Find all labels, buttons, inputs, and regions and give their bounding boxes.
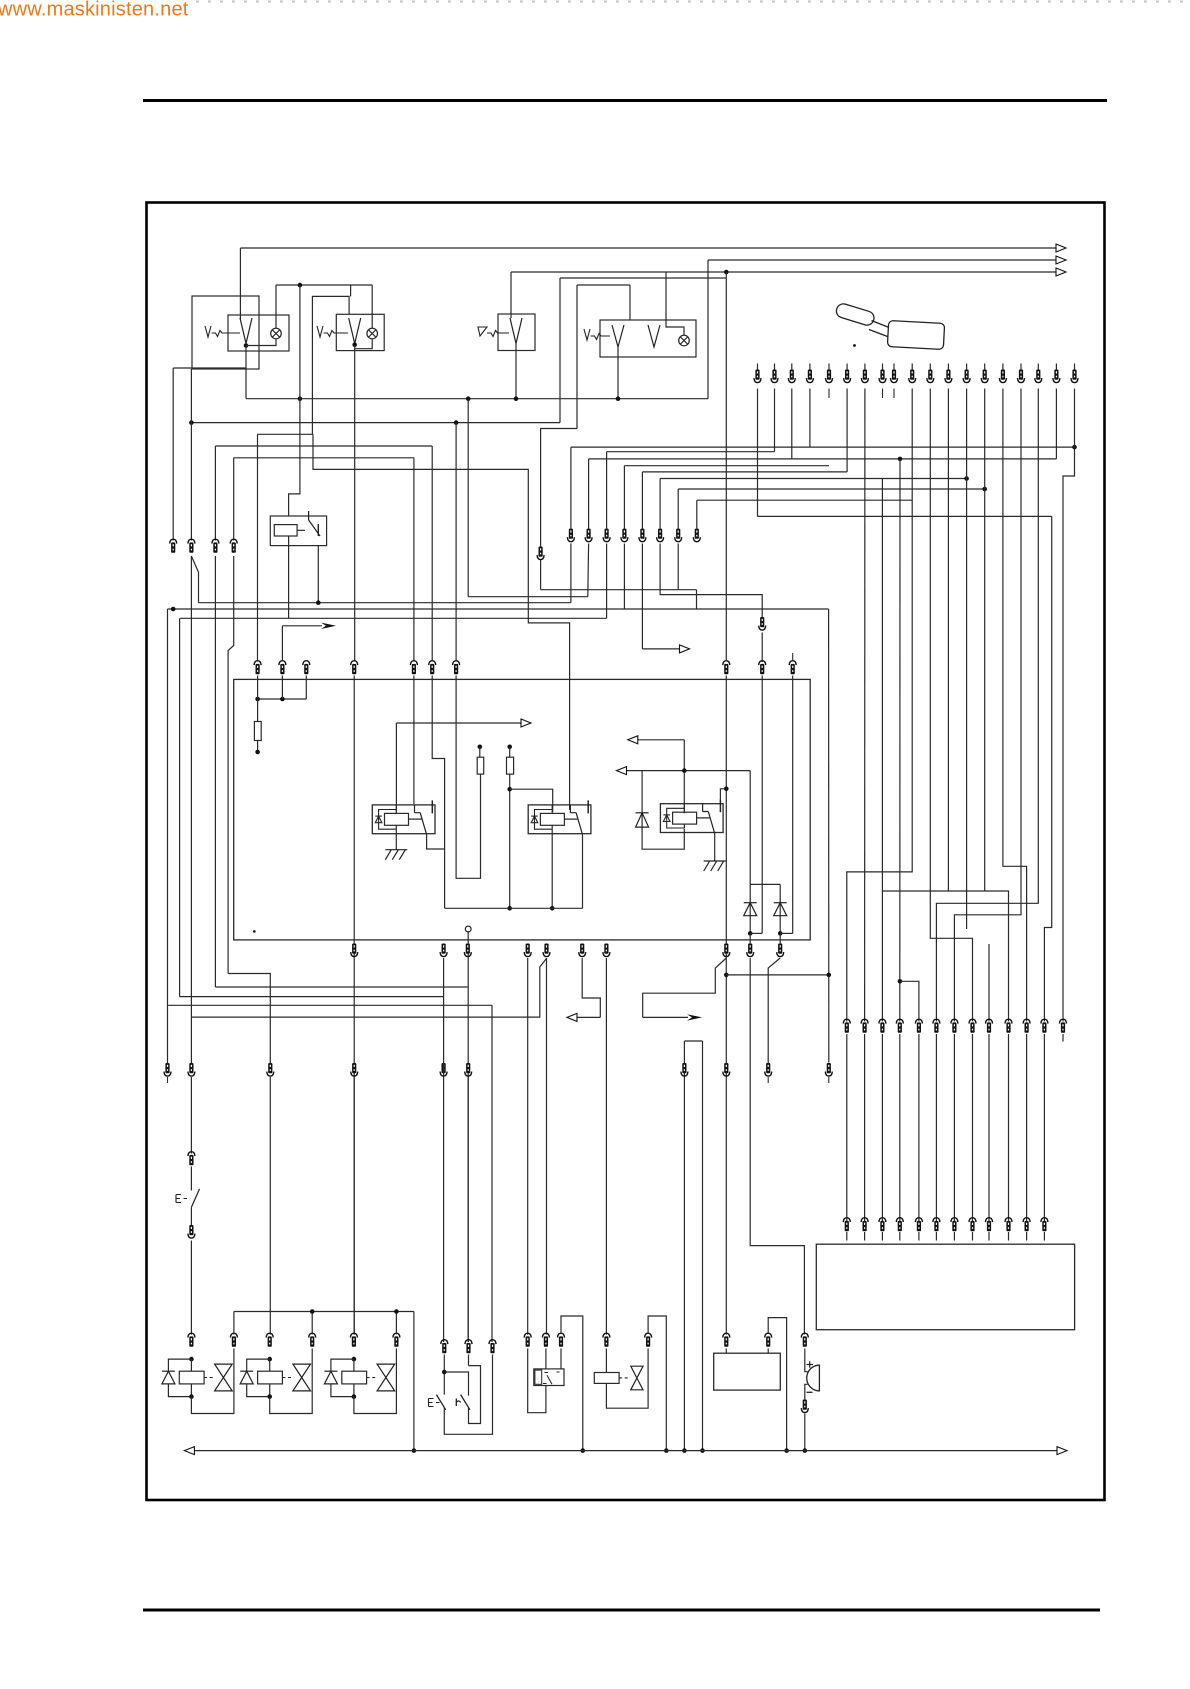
switch S3 contact — [510, 318, 522, 344]
wire horn R stub — [767, 1349, 769, 1354]
lamp H3 — [679, 335, 690, 346]
wire col row5R-6 #7 — [953, 1034, 955, 1222]
pin row5 x684 — [681, 1063, 688, 1076]
wire col x726.3 inner — [725, 676, 727, 1335]
relay K2 parallel diode — [531, 810, 552, 830]
wire bus y618.3 — [180, 617, 606, 619]
wire K1 coil top stub — [395, 805, 397, 814]
node S1 output — [244, 343, 249, 348]
switch S1 inner box — [228, 315, 289, 351]
pin row5R #8 — [969, 1019, 976, 1033]
wire bus y987 — [215, 986, 467, 988]
pin row3 #6 — [429, 661, 436, 675]
pin row1 #16 — [1018, 370, 1025, 383]
junction x828.8 y974.9 — [827, 973, 832, 978]
wire solenoid Y3 diode loop — [331, 1359, 354, 1371]
pin row1 #18 — [1053, 370, 1060, 383]
wire col x546.5 — [546, 958, 548, 1335]
pin row3 #7 — [453, 661, 460, 675]
pin flasher M — [542, 1333, 549, 1347]
wire bus y422.6 — [191, 422, 560, 424]
pin row5R #11 — [1023, 1019, 1030, 1033]
pin row5R #12 — [1041, 1019, 1048, 1033]
pin row3 #2 — [279, 661, 286, 675]
wire drop mid7 to y589.7 — [677, 544, 679, 590]
wire row1-17 drop — [1055, 389, 1057, 459]
junction D2 out — [748, 931, 753, 936]
wire fuse F1 top stub — [257, 699, 259, 722]
wire row1 pin 19 top stub — [1074, 364, 1076, 371]
wire D3 link — [780, 932, 793, 934]
wire lamp H1 top feed — [275, 285, 277, 328]
wire solenoid Y2 return — [270, 1349, 313, 1414]
wire col row5R-6 #6 — [935, 1034, 937, 1222]
junction y422.6 x456.1 — [454, 420, 459, 425]
mark period inside box — [253, 930, 256, 933]
wire arrow y723 — [396, 719, 531, 727]
junction y1450 x582.8 — [581, 1448, 586, 1453]
wire solenoid Y2 coil col — [269, 1359, 271, 1371]
relay K1 parallel diode — [375, 810, 396, 830]
wire F3 to K2 coil — [510, 789, 553, 812]
flasher unit box — [534, 1369, 564, 1386]
pin row5R #5 — [915, 1019, 922, 1033]
junction fan x966.6 — [964, 476, 969, 481]
wire col x173.2 — [172, 368, 174, 541]
wire row3 3 drop — [305, 676, 307, 700]
solenoid Y1 coil — [179, 1371, 204, 1384]
wire row5 x828 tail — [828, 1077, 830, 1083]
pin row4 #9 — [747, 944, 754, 957]
wire col row5R-6 #1 — [846, 1034, 848, 1222]
wire fuse F3 top stub — [509, 747, 511, 757]
wire col x191.4 low2 — [190, 1167, 192, 1191]
pin horn L — [723, 1333, 730, 1347]
pin solenoid Y1 return — [230, 1333, 237, 1347]
pin standalone x762 — [759, 617, 766, 630]
pin row1 #2 — [771, 370, 778, 383]
pin solenoid Y2 return — [309, 1333, 316, 1347]
wire arrow y739.8 — [628, 736, 685, 744]
wire bus y457.8 — [234, 457, 414, 459]
wire solenoid Y3 coil col low — [353, 1384, 355, 1397]
wire row1-4 stub — [828, 389, 830, 399]
wire bus-B y260 to arrow — [708, 256, 1066, 264]
wire col row5R-6 #4 — [899, 1034, 901, 1222]
wire K4 output drop — [317, 546, 319, 603]
wire row3 x456 drop — [456, 676, 480, 879]
wire solenoid Y1 diode loop low — [168, 1384, 191, 1397]
wire row6 stub #12 — [1043, 1232, 1045, 1241]
wire riser x577 — [576, 285, 578, 429]
diagram frame border — [147, 203, 1105, 1501]
wire bridge top link — [750, 883, 780, 885]
junction y699 x257.6 — [255, 697, 260, 702]
pin row6 #11 — [1023, 1218, 1030, 1232]
pin mid #2 — [585, 529, 592, 542]
switch S5 — [456, 1395, 470, 1410]
pin mid #4 — [621, 529, 628, 542]
pin row5R #4 — [896, 1019, 903, 1033]
pin row3 #3 — [303, 661, 310, 675]
wire row1 pin 10 top stub — [911, 364, 913, 371]
relay K3 contact — [697, 799, 721, 833]
pin cluster #2 — [465, 1340, 472, 1354]
wire bus y285 left — [276, 284, 372, 286]
wire bus y398.7 — [246, 398, 708, 400]
wire row6 stub #4 — [899, 1232, 901, 1241]
wire fuse F2 top stub — [479, 747, 481, 757]
wire Y4 ret riser — [648, 1316, 666, 1451]
wire bridge left col — [749, 884, 751, 933]
wire col row5R-6 #12 — [1043, 1034, 1045, 1222]
pin row3 #5 — [410, 661, 417, 675]
switch S1 outer frame — [192, 296, 259, 369]
pin speaker top — [801, 1333, 808, 1347]
diode of solenoid Y3 — [324, 1371, 337, 1384]
wire arrow y1017 left — [567, 1013, 600, 1021]
pin row1 #15 — [999, 370, 1006, 383]
pin row5R #2 — [861, 1019, 868, 1033]
wire row1-2 drop — [791, 389, 793, 459]
pin row4 #3 — [464, 944, 471, 957]
valve symbol of solenoid Y3 — [377, 1364, 395, 1391]
pin row2 #1 — [170, 539, 177, 553]
wire K3 coil feed — [683, 740, 685, 814]
wire arrowS x582 — [582, 958, 600, 1017]
speaker buzzer symbol — [807, 1365, 820, 1391]
ground below K3 — [704, 861, 726, 871]
pin row5R #9 — [986, 1019, 993, 1033]
node fuse F1 end — [255, 750, 260, 755]
wire S2 apex node — [354, 344, 356, 345]
pin row4 #4 — [524, 944, 531, 957]
wire drop mid1 — [570, 544, 572, 603]
solenoid Y3 coil — [342, 1371, 367, 1384]
wire Y4 feed stub — [605, 1349, 607, 1373]
horn unit box — [714, 1353, 781, 1390]
wire bus-C y272 to arrow — [511, 268, 1066, 276]
wire row1 pin 12 top stub — [947, 364, 949, 371]
wire col x443.6 low — [443, 958, 445, 1342]
diode of solenoid Y2 — [240, 1371, 253, 1384]
label plus — [807, 1361, 814, 1368]
pin row2 #2 — [188, 539, 195, 553]
wire K3 coil top stub — [683, 804, 685, 813]
wire flasher M stub — [545, 1349, 547, 1369]
wire row1 pin 17 top stub — [1037, 364, 1039, 371]
wire fan y489 — [678, 488, 985, 490]
relay K2 coil — [540, 813, 564, 825]
pin row5R #1 — [843, 1019, 850, 1033]
wire drop mid3 — [606, 544, 608, 619]
pin row3 #9 — [759, 661, 766, 675]
junction y399 x516 — [514, 396, 519, 401]
junction fan x984.7 — [982, 487, 987, 492]
wire bus y596.7 — [468, 596, 588, 598]
wire mid2 riser — [588, 459, 590, 529]
control unit big box — [234, 679, 811, 940]
pin mid offset — [537, 547, 544, 560]
pin row1 #1 — [754, 370, 761, 383]
wire col x179.6 — [179, 618, 181, 996]
wire col x191.4 low3 — [190, 1207, 192, 1226]
wire arrow y770.6 — [617, 767, 751, 775]
solenoid Y1 bottom node — [189, 1394, 194, 1399]
wire fuse F1 riser — [257, 434, 259, 661]
wire col 900-918 branch — [900, 981, 919, 1021]
wire sol2 ret riser — [311, 1312, 313, 1335]
junction y602.7 x318 — [316, 600, 321, 605]
junction D3 out — [778, 931, 783, 936]
wire bus y278 — [560, 277, 726, 279]
wire col x468.2 low — [467, 932, 469, 1342]
pin solenoid Y3 return — [393, 1333, 400, 1347]
wire drop mid5 arrow — [641, 544, 643, 649]
wire riser x299.9 relay feed — [289, 285, 300, 516]
relay K1 contact — [409, 800, 433, 834]
wire col row5R-6 #9 — [988, 1034, 990, 1222]
wire col row5R-6 #2 — [864, 1034, 866, 1222]
wire diag x780-x768 — [768, 958, 780, 1064]
pin row6 #1 — [843, 1218, 850, 1232]
wire S-bend x540 — [541, 429, 577, 548]
wire row1-1 drop — [774, 389, 776, 452]
wire fan y500 — [697, 499, 912, 501]
junction x726.3 y974.9 — [724, 973, 729, 978]
wire solenoid Y3 diode loop low — [331, 1384, 354, 1397]
wire K2 coil bottom stub — [551, 825, 553, 829]
wire row1 pin 3 top stub — [791, 364, 793, 371]
wire solenoid Y3 return — [354, 1349, 397, 1414]
wire row3 x414 drop — [413, 676, 415, 805]
pin mid #3 — [603, 529, 610, 542]
wire cluster col2 stub — [468, 1355, 470, 1366]
wire col x684.4 — [683, 1041, 685, 1451]
wire col x750.2 low — [750, 958, 804, 1335]
wire col x354.2 low — [353, 1077, 355, 1335]
wire fan y472 — [642, 471, 847, 473]
wire mid8 riser — [696, 500, 698, 529]
pin row5R #13 — [1060, 1019, 1067, 1033]
wire col 882-1008 jog — [882, 891, 1008, 1022]
pin row6 #10 — [1005, 1218, 1012, 1232]
wire row6 stub #11 — [1026, 1232, 1028, 1241]
wire solenoid Y3 coil col — [353, 1359, 355, 1371]
wire solenoid Y1 return — [191, 1349, 234, 1414]
bottom rule — [143, 1609, 1100, 1612]
solenoid Y2 bottom node — [267, 1394, 272, 1399]
lamp H2 — [367, 328, 378, 339]
wire S4 left output — [617, 347, 619, 399]
wire col 882.4 — [881, 479, 883, 1022]
wire row1 pin 7 top stub — [864, 364, 866, 371]
legend box — [816, 1244, 1074, 1330]
wire solenoid Y1 diode loop — [168, 1359, 191, 1371]
pin row4 #2 — [440, 944, 447, 957]
pin row3 #4 — [351, 661, 358, 675]
wire fan y452 — [607, 451, 775, 453]
wire K1 coil bottom stub — [395, 825, 397, 829]
wire drop mid6 to pin — [660, 544, 762, 619]
pin row5R #10 — [1005, 1019, 1012, 1033]
pin mid #1 — [567, 529, 574, 542]
wire K2 pivot feed — [313, 434, 570, 810]
wire col x233.7-x228.1 jog — [228, 556, 234, 974]
wire K2 coil drop — [551, 829, 553, 908]
pin flasher R — [558, 1333, 565, 1347]
pin solenoid Y2 feed — [266, 1333, 273, 1347]
wire y589-y609 link — [696, 590, 698, 609]
relay K1 coil — [385, 813, 409, 825]
junction fan x900 — [898, 457, 903, 462]
wire col 900 — [899, 459, 901, 1022]
wire switch S3 feed drop — [510, 272, 512, 316]
junction y908 x552.2 — [550, 906, 555, 911]
diode D2 — [744, 903, 757, 916]
wire arrow y1017 right — [643, 1014, 702, 1020]
wire arrowS x725 — [643, 958, 727, 1017]
wire mid1 riser — [570, 447, 572, 529]
wire col x606.4 — [605, 958, 607, 1335]
pin row5 x828 — [825, 1063, 832, 1076]
pin row6 #5 — [915, 1218, 922, 1232]
wire row1 pin 15 top stub — [1002, 364, 1004, 371]
pin row3 #8 — [723, 661, 730, 675]
wire row1 pin 4 top stub — [809, 364, 811, 371]
wire K1 coil gnd — [395, 829, 397, 850]
pin row5 #3 — [267, 1063, 274, 1076]
wire col x270.3 low — [269, 1077, 271, 1335]
wire drop mid offset — [540, 560, 542, 590]
pin solenoid Y4 feed — [603, 1333, 610, 1347]
wire mid5 riser — [641, 472, 643, 529]
pin mid #5 — [639, 529, 646, 542]
wire S4 left drop — [629, 285, 631, 320]
wire row1 pin 11 top stub — [929, 364, 931, 371]
wire col 912-846 jog — [847, 389, 912, 1022]
pin row4 #6 — [579, 944, 586, 957]
wire jog pin191 to y602.7 — [191, 556, 198, 603]
junction y770.6 x684.3 — [682, 768, 687, 773]
pin row6 #8 — [969, 1218, 976, 1232]
wire K3 bar link — [720, 789, 726, 799]
wire S1 output down — [245, 346, 247, 399]
pin mid #6 — [657, 529, 664, 542]
pin row5 #6 — [465, 1063, 472, 1076]
wire col 1074-1063 jog — [1063, 389, 1075, 1022]
wire D2 to pin4 — [749, 933, 751, 944]
wire row1 pin 8 top stub — [882, 364, 884, 371]
pin flasher L — [524, 1333, 531, 1347]
wire row3 x762 drop — [761, 676, 763, 934]
label V~ of S1 — [205, 326, 240, 337]
solenoid Y1 top node — [189, 1357, 194, 1362]
label V~ of S2 — [317, 326, 348, 337]
wire Y4 return — [606, 1349, 648, 1409]
solenoid Y3 top node — [352, 1357, 357, 1362]
wire col 1021-954 jog — [954, 389, 1021, 1022]
relay K4 coil — [274, 525, 297, 536]
valve symbol of Y4 — [631, 1366, 643, 1390]
pin row1 #19 — [1071, 370, 1078, 383]
wire bottom bus y1450.6 — [184, 1447, 1067, 1455]
wire bus y368 to pin — [173, 367, 246, 369]
wire col x167.5 — [167, 609, 169, 1064]
junction x299.9/y285 — [298, 283, 303, 288]
wire mid3 riser — [606, 452, 608, 529]
relay K4 box — [270, 516, 326, 546]
pin row6 #7 — [951, 1218, 958, 1232]
wire col x432.2 — [431, 446, 433, 662]
dashed link of Y4 — [619, 1377, 628, 1379]
wire mid6 riser — [659, 479, 661, 530]
pin row5R #7 — [951, 1019, 958, 1033]
pin row4 #7 — [603, 944, 610, 957]
wire row6 stub #8 — [972, 1232, 974, 1241]
wire col 984 stub — [984, 389, 986, 892]
pin row5R #3 — [879, 1019, 886, 1033]
wire bus y602.7 — [199, 602, 571, 604]
wire fan y459 — [589, 458, 1057, 460]
junction y1450 x702.5 — [700, 1448, 705, 1453]
pin solenoid Y1 feed — [188, 1333, 195, 1347]
wire row6 stub #9 — [988, 1232, 990, 1241]
wire row6 stub #1 — [846, 1232, 848, 1241]
wire cluster link — [444, 1372, 468, 1396]
wire fuse F3 bottom col — [509, 774, 511, 908]
pin row1 #17 — [1035, 370, 1042, 383]
svg-text:www.maskinisten.net: www.maskinisten.net — [0, 0, 189, 21]
wire speaker bottom col — [804, 1414, 806, 1451]
wire fan y516 — [758, 515, 1052, 517]
wire bus y446 — [215, 445, 432, 447]
pin row4 #10 — [777, 944, 784, 957]
wire K4 coil bottom drop — [288, 536, 290, 618]
wire branch x726-x828 — [726, 974, 829, 976]
diode D3 — [774, 903, 787, 916]
wire S1 apex to node — [245, 344, 247, 346]
wire col row5R-6 #8 — [972, 1034, 974, 1222]
wire K3 coil bottom stub — [683, 824, 685, 828]
wire riser x560 — [559, 278, 561, 423]
switch S4 box — [600, 320, 696, 357]
wire fan y478 — [660, 478, 967, 480]
wire riser x708 — [707, 260, 709, 399]
wire diag x683 up — [684, 1040, 702, 1042]
pin row4 #8 — [723, 944, 730, 957]
switch E2 — [436, 1395, 445, 1410]
pin row5 #5 — [440, 1063, 447, 1076]
wire col 1038-936 jog — [936, 389, 1038, 1022]
junction fan x1074.5 — [1072, 445, 1077, 450]
wire drop mid4 — [623, 544, 625, 610]
wire drop mid2 — [587, 544, 590, 597]
wire row1 pin 13 top stub — [966, 364, 968, 371]
wire mid4 riser — [623, 466, 625, 529]
wire col x468.2 upper — [467, 399, 469, 597]
wire row5R13 tail — [1062, 1034, 1064, 1042]
wire row5-1 tail — [167, 1077, 169, 1083]
relay K2 contact — [564, 800, 588, 834]
pin row5R #6 — [933, 1019, 940, 1033]
junction y1450 x684.4 — [682, 1448, 687, 1453]
switch E1 (emergency) — [191, 1189, 199, 1207]
junction y399 x618 — [616, 396, 621, 401]
junction y422.6 x191.4 — [189, 420, 194, 425]
wire row1-3 drop — [809, 389, 811, 448]
junction y1450 x666.3 — [664, 1448, 669, 1453]
